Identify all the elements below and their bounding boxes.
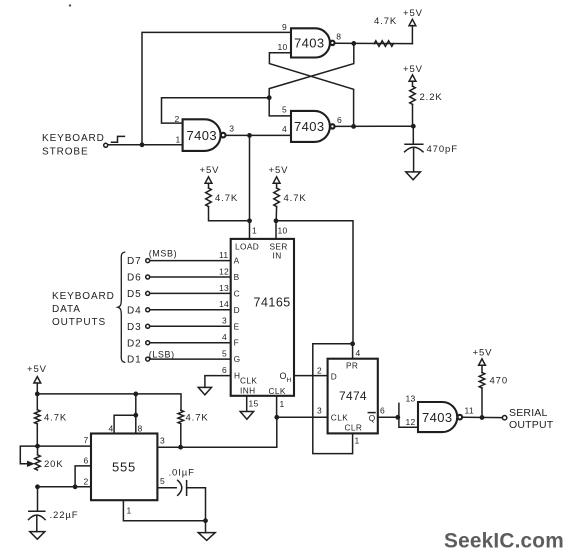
wire D2 to pin F (150, 342, 231, 344)
svg-text:6: 6 (380, 406, 385, 416)
resistor 470 pull-up (479, 365, 508, 417)
nand gate U6 7403 output buffer (418, 402, 474, 432)
node D6 input (127, 273, 150, 284)
wire pin 6 to pin 2 node (75, 466, 91, 487)
svg-text:2: 2 (175, 114, 180, 124)
capacitor .22uF (29, 487, 79, 532)
svg-text:2.2K: 2.2K (420, 92, 443, 103)
wire D3 to pin E (150, 325, 231, 327)
svg-text:7: 7 (84, 435, 89, 445)
wire gate U1 pin 2 from latch node (162, 98, 270, 123)
wire U3 output to RC node (335, 125, 414, 127)
svg-text:SERIAL: SERIAL (509, 407, 548, 419)
svg-text:20K: 20K (44, 459, 64, 470)
shift register U4 74165 (231, 226, 294, 397)
speck artifact (69, 4, 71, 6)
svg-text:1: 1 (127, 506, 132, 516)
junction pins 4-8 node (133, 413, 138, 418)
svg-text:D7: D7 (127, 256, 142, 267)
svg-text:7403: 7403 (422, 410, 453, 425)
svg-text:15: 15 (249, 399, 259, 409)
power +5V for 2.2K (403, 64, 423, 86)
svg-text:D5: D5 (127, 289, 142, 300)
node D7 input (127, 248, 177, 267)
svg-text:C: C (234, 288, 240, 298)
wire 555 pin 3 output (157, 446, 180, 448)
wire 555 pin 1 to ground run (123, 500, 205, 521)
svg-text:5: 5 (282, 105, 287, 115)
power +5V bottom left (27, 364, 47, 410)
svg-text:7474: 7474 (339, 389, 367, 403)
node D2 input (127, 338, 150, 349)
junction strobe node (140, 142, 145, 147)
wire 555 pins 4 and 8 tie (114, 415, 136, 433)
svg-text:G: G (234, 354, 241, 364)
svg-text:D: D (331, 372, 337, 382)
svg-text:CLK: CLK (240, 376, 257, 386)
junction clock node (274, 415, 279, 420)
svg-text:+5V: +5V (27, 364, 47, 375)
wire LOAD pin stub (249, 221, 251, 239)
svg-text:(MSB): (MSB) (149, 248, 178, 258)
svg-text:KEYBOARD: KEYBOARD (42, 133, 105, 144)
svg-text:1: 1 (280, 399, 285, 409)
node D1 input (127, 350, 175, 366)
junction LOAD pin node (247, 218, 252, 223)
label KEYBOARD DATA OUTPUTS (52, 291, 115, 328)
capacitor .01uF on pin 5 (157, 468, 205, 521)
svg-text:INH: INH (240, 386, 256, 396)
wire gate U2 output (335, 42, 413, 44)
resistor 4.7K right (555 pin3 pull-up) (178, 410, 209, 447)
junction load node (247, 133, 252, 138)
flip-flop U5 7474 (328, 359, 378, 434)
junction ground node (203, 518, 208, 523)
wire down to ground (205, 521, 207, 533)
wire 7474 PR stub (352, 344, 354, 359)
svg-text:B: B (234, 272, 240, 282)
svg-text:F: F (234, 338, 239, 348)
svg-text:KEYBOARD: KEYBOARD (52, 291, 115, 302)
svg-text:10: 10 (278, 226, 288, 236)
svg-text:13: 13 (406, 394, 416, 404)
svg-text:+5V: +5V (403, 8, 423, 19)
svg-text:9: 9 (282, 22, 287, 32)
svg-text:A: A (234, 256, 240, 266)
svg-text:3: 3 (160, 436, 165, 446)
wire D5 to pin C (150, 292, 231, 294)
ground below 470pF (406, 172, 421, 180)
junction pot bottom / pin 2 node (35, 484, 40, 489)
svg-text:.0IµF: .0IµF (169, 468, 195, 479)
wire D6 to pin B (150, 276, 231, 278)
node D5 input (127, 289, 150, 300)
svg-text:1: 1 (176, 135, 181, 145)
svg-text:DATA: DATA (52, 304, 81, 315)
junction SER IN node (274, 218, 279, 223)
wire strobe input to gate U1 pin1 (108, 144, 183, 146)
power +5V top right (403, 8, 423, 44)
svg-text:CLK: CLK (269, 386, 286, 396)
svg-text:+5V: +5V (473, 348, 493, 359)
svg-text:LOAD: LOAD (235, 242, 259, 252)
potentiometer 20K (20, 446, 63, 470)
svg-text:11: 11 (219, 250, 228, 260)
svg-text:(LSB): (LSB) (149, 350, 175, 360)
svg-text:4: 4 (109, 424, 114, 434)
junction latch node at U1 pin2 tie (267, 95, 272, 100)
svg-text:SeekIC.com: SeekIC.com (444, 530, 564, 553)
rising edge symbol (112, 136, 125, 142)
svg-text:OUTPUTS: OUTPUTS (52, 317, 106, 328)
svg-text:4.7K: 4.7K (44, 413, 67, 424)
wire pin 2 rail (38, 486, 92, 488)
wire clock node down to 555 output (157, 417, 276, 447)
svg-text:5: 5 (160, 476, 165, 486)
wire load node down to 74165 LOAD pull-up rail (249, 135, 251, 220)
svg-text:4.7K: 4.7K (215, 193, 238, 204)
node D4 input (127, 305, 150, 316)
wire gate U6 output to serial terminal (462, 416, 502, 418)
svg-text:12: 12 (406, 417, 416, 427)
resistor 4.7K LOAD pull-up (206, 188, 250, 221)
wire 7474 Q-bar output (378, 416, 398, 418)
svg-text:5: 5 (222, 349, 227, 359)
junction Q-bar node (395, 415, 400, 420)
svg-text:4.7K: 4.7K (374, 16, 397, 27)
node SERIAL OUTPUT terminal (502, 407, 553, 431)
capacitor 470pF (405, 126, 458, 172)
svg-text:10: 10 (278, 42, 288, 52)
svg-text:4: 4 (282, 124, 287, 134)
wire D1 to pin G (150, 358, 231, 360)
svg-text:CLR: CLR (345, 423, 363, 433)
wire 4-8 node to +5V rail (135, 394, 137, 415)
junction rail at 555 Vcc (133, 392, 138, 397)
junction serial output node (480, 415, 485, 420)
svg-text:.22µF: .22µF (50, 510, 79, 521)
wire PR to CLR loop (313, 344, 353, 454)
junction +5V rail node (35, 392, 40, 397)
wire cross-couple U2 out to U3 pin 5 and U1 pin 2 (269, 43, 354, 116)
svg-text:4.7K: 4.7K (186, 413, 209, 424)
svg-text:Q: Q (369, 413, 376, 423)
svg-text:14: 14 (219, 299, 229, 309)
node D3 input (127, 322, 150, 333)
wire SER IN node to 7474 PR (276, 221, 353, 344)
svg-text:H: H (287, 377, 292, 384)
ground at pin H (198, 387, 211, 395)
wire CLK INH pin 15 stub (246, 396, 248, 411)
wire strobe node up to gate U2 pin 9 (142, 32, 291, 144)
resistor 4.7K left (35, 410, 68, 446)
wire pin 7 to node (38, 445, 92, 447)
svg-text:74165: 74165 (254, 296, 291, 310)
resistor 4.7K SER IN pull-up (274, 188, 307, 221)
svg-text:4: 4 (222, 332, 227, 342)
svg-text:O: O (280, 371, 287, 381)
nand gate U2 7403 latch top (278, 22, 342, 58)
wire QH to 7474 D (294, 375, 328, 377)
svg-text:D6: D6 (127, 273, 142, 284)
nand gate U3 7403 latch bottom (282, 105, 342, 142)
svg-text:3: 3 (222, 316, 227, 326)
svg-text:IN: IN (273, 251, 282, 261)
svg-text:4.7K: 4.7K (284, 193, 307, 204)
wire +5V rail to right (37, 394, 181, 410)
svg-text:PR: PR (346, 360, 358, 370)
wire gate U1 output to gate U3 pin 4 (226, 134, 291, 136)
op... nand gate U1 7403 keyboard strobe (175, 114, 235, 151)
svg-text:6: 6 (84, 456, 89, 466)
svg-text:7403: 7403 (187, 128, 218, 143)
svg-text:6: 6 (222, 365, 227, 375)
junction PR node (350, 341, 355, 346)
wire D7 to pin A (150, 260, 231, 262)
svg-text:7403: 7403 (294, 119, 325, 134)
wire 74165 CLK pin stub (276, 396, 278, 418)
ground below 555 (198, 533, 215, 541)
svg-text:470pF: 470pF (427, 144, 458, 155)
wire pin H to ground (205, 376, 231, 388)
svg-text:D1: D1 (127, 355, 142, 366)
wire gate input bracket pins 13 12 (399, 403, 418, 427)
ground at CLK INH (240, 412, 253, 420)
svg-text:11: 11 (465, 406, 474, 416)
svg-text:12: 12 (219, 266, 229, 276)
resistor 4.7K pull-up on U2 output (374, 16, 397, 46)
svg-text:3: 3 (317, 406, 322, 416)
svg-text:+5V: +5V (403, 64, 423, 75)
svg-text:3: 3 (229, 124, 234, 134)
junction gate U3 output node (351, 124, 356, 129)
svg-text:D: D (234, 305, 240, 315)
svg-text:7403: 7403 (294, 36, 325, 51)
svg-text:OUTPUT: OUTPUT (509, 419, 554, 431)
wire cross-couple U3 out to U2 pin 10 (269, 53, 353, 127)
svg-text:13: 13 (219, 283, 229, 293)
node KEYBOARD STROBE input terminal (42, 133, 108, 158)
svg-text:D4: D4 (127, 305, 142, 316)
brace keyboard data group (118, 252, 126, 362)
junction 555 output node (178, 445, 183, 450)
svg-text:D2: D2 (127, 338, 142, 349)
svg-text:+5V: +5V (269, 165, 289, 176)
junction pin 6 tie (73, 484, 78, 489)
svg-text:470: 470 (490, 376, 509, 387)
svg-text:D3: D3 (127, 322, 142, 333)
svg-text:E: E (234, 321, 240, 331)
power +5V for LOAD pull-up (200, 165, 220, 188)
timer U7 555 (91, 434, 157, 501)
junction RC delay node (411, 124, 416, 129)
wire D4 to pin D (150, 309, 231, 311)
svg-text:STROBE: STROBE (42, 146, 89, 157)
power +5V for 470 (473, 348, 493, 366)
svg-text:4: 4 (356, 348, 361, 358)
svg-text:1: 1 (252, 226, 257, 236)
svg-text:2: 2 (84, 477, 89, 487)
wire clock node to 7474 CLK (277, 416, 328, 418)
svg-text:8: 8 (336, 32, 341, 42)
svg-text:6: 6 (337, 115, 342, 125)
svg-text:1: 1 (355, 436, 360, 446)
wire SER IN pin stub (275, 221, 277, 239)
svg-text:555: 555 (112, 460, 136, 475)
svg-text:2: 2 (317, 365, 322, 375)
junction gate U2 output node (351, 41, 356, 46)
ground below .22uF (30, 532, 45, 540)
resistor 2.2K (410, 86, 443, 126)
svg-text:+5V: +5V (200, 165, 220, 176)
svg-text:CLK: CLK (331, 412, 348, 422)
junction pot top / pin 7 node (35, 444, 40, 449)
power +5V for SER IN pull-up (269, 165, 289, 188)
svg-text:8: 8 (138, 424, 143, 434)
